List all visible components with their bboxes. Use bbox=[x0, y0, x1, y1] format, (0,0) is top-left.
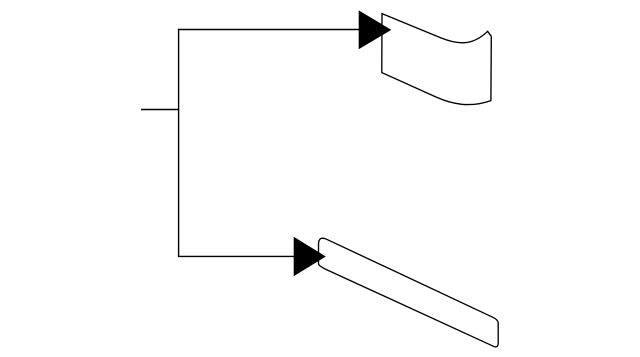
arrowhead: top branch bbox=[359, 10, 392, 49]
curved sheet shape (top right) bbox=[382, 14, 492, 105]
wire: bottom branch bbox=[178, 255, 295, 257]
wire: vertical trunk bbox=[178, 29, 180, 257]
wire: top branch bbox=[178, 29, 360, 31]
wire: left input stub bbox=[141, 109, 179, 111]
arrowhead: bottom branch bbox=[294, 237, 326, 277]
slanted rounded bar shape (bottom right) bbox=[319, 238, 499, 347]
